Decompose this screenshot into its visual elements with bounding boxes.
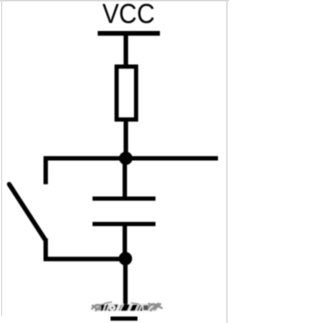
node A junction dot bbox=[119, 152, 132, 165]
wire capacitor C1 to node B bbox=[123, 226, 127, 260]
wire node A horizontal with left stub bbox=[46, 158, 218, 184]
wire node A to capacitor C1 bbox=[123, 158, 127, 199]
node B junction dot bbox=[119, 252, 132, 265]
border frame left bbox=[1, 0, 2, 316]
watermark cuts over ground bar bbox=[103, 303, 142, 312]
power symbol VCC bar bbox=[98, 31, 160, 36]
watermark band bbox=[95, 304, 157, 312]
watermark scribble left bbox=[92, 304, 109, 311]
border frame top bbox=[0, 0, 229, 1]
resistor R1 bbox=[117, 67, 137, 120]
wire node B to ground bbox=[123, 259, 127, 307]
watermark marks above bar bbox=[104, 302, 139, 304]
capacitor C1 bottom plate bbox=[93, 222, 156, 226]
ground bar 2 bbox=[111, 317, 138, 321]
border frame right bbox=[226, 0, 227, 323]
ground bar 1 right fragment bbox=[144, 305, 149, 310]
wire resistor R1 to node A bbox=[124, 120, 129, 160]
watermark scribble right bbox=[147, 303, 163, 311]
switch S1 lever bbox=[9, 184, 45, 240]
wire switch S1 to node B bbox=[46, 239, 126, 260]
wire VCC to resistor R1 bbox=[124, 33, 129, 67]
svg-text:VCC: VCC bbox=[102, 0, 155, 29]
capacitor C1 top plate bbox=[93, 197, 156, 201]
ground bar 1 bbox=[101, 305, 142, 311]
